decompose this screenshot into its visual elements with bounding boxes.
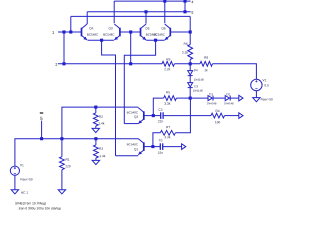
ground below R2 (92, 128, 99, 132)
node Q2 base junction (152, 114, 155, 117)
label V1 (20, 164, 24, 166)
label R6 (184, 43, 188, 45)
transistor Q2 (mirrored) (138, 108, 144, 124)
label R9 2.2k (164, 68, 170, 70)
label Q6 BC548C (154, 34, 165, 36)
wire D4 to D3 (189, 76, 191, 83)
label V2 0.5 (265, 84, 269, 86)
output port arrow 3 (182, 144, 186, 150)
resistor R9 (162, 61, 174, 66)
net flag 3 (40, 112, 43, 120)
ground below R1 (58, 190, 65, 194)
transistor Q1 (mirrored) (138, 139, 144, 155)
wire rail3 right riser to Q6 base (189, 16, 191, 44)
ground below R3 (92, 160, 99, 164)
label Q1 (134, 148, 138, 151)
resistor R6 (188, 45, 193, 64)
wire Q2 collector run (62, 107, 138, 139)
wire rail1 (Q3/Q6 collectors) (114, 0, 190, 2)
transistor Q3 (mirrored) (114, 24, 120, 40)
diode D1 (208, 96, 213, 101)
node bottom wire junctions (40, 137, 97, 140)
label R5 (166, 91, 170, 93)
node pair2 emitter junction (154, 39, 157, 42)
label Q3 (109, 27, 113, 30)
label R8 (204, 56, 208, 58)
label V2 (262, 79, 266, 81)
ground below V1 (11, 190, 18, 194)
wire node to D1 (190, 97, 208, 99)
label D1 (209, 93, 212, 95)
wire rail3 (Q4 base to Q6 base) (71, 15, 190, 17)
output port arrow 2 (239, 113, 243, 119)
label R3 (99, 147, 103, 149)
wire pair1 emitter bus (88, 39, 114, 41)
resistor R1 (60, 139, 65, 190)
wire Q4 base riser down (63, 32, 65, 64)
label R6 2.2k (182, 51, 188, 53)
wire Q3-Q5 base riser down (130, 32, 132, 64)
wire R5 right leg (176, 97, 190, 99)
label Q1 BC548C (127, 143, 138, 145)
port flag 2 (56, 63, 58, 66)
wire Q6 base lead (170, 31, 190, 33)
label Q4 BC548C (87, 34, 98, 36)
wire bias bus to V2 (213, 64, 257, 80)
label R1 220 (65, 165, 70, 167)
wire D3 to node (189, 88, 191, 98)
wire rail1-rail2 link (184, 1, 186, 12)
capacitor C1 (153, 143, 182, 150)
label D2 1N4148 (224, 102, 234, 104)
label R4 100 (215, 121, 220, 123)
wire Q1 base lead (144, 146, 153, 148)
label D4 (194, 69, 198, 71)
wire Q1 emitter lead (116, 155, 139, 157)
capacitor C3 (153, 112, 211, 119)
wire V1 to ground (14, 175, 16, 189)
diode D3 (188, 83, 193, 88)
spice directive (18, 207, 61, 210)
resistor R4 (211, 113, 225, 118)
label V1 SINE value (15, 202, 46, 205)
node rail2 junctions (144, 10, 186, 13)
label R9 (167, 58, 171, 60)
label R5 3.3k (164, 102, 170, 104)
diode D2 (225, 96, 230, 101)
label R1 (66, 158, 70, 160)
wire Q4 base lead (58, 31, 82, 33)
label R2 1.4k (99, 122, 105, 124)
label V1 Rser=50 (21, 178, 33, 180)
node Q1 base junction (151, 145, 154, 148)
transistor Q6 (mirrored) (165, 24, 171, 40)
net flag 3 wire (41, 121, 43, 139)
wire R5 left leg (153, 98, 163, 116)
label Q5 BC548C (146, 34, 157, 36)
wire Q2 emitter lead (124, 123, 138, 125)
label D2 (227, 93, 230, 95)
diode D4 (188, 71, 193, 76)
resistor R3 (94, 139, 99, 161)
label R8 1k (205, 69, 208, 71)
label R7 (166, 126, 170, 128)
label R7 3.3k (165, 136, 171, 138)
label R3 1.4k (100, 155, 106, 157)
wire Q3-Q5 base link (120, 31, 141, 33)
node pair1 emitter junction (100, 39, 103, 42)
label C3 22n (158, 120, 163, 122)
wire Q2 base lead (144, 115, 154, 117)
wire V2 to ground (255, 91, 257, 98)
resistor R7 (160, 130, 175, 135)
resistor R5 (164, 96, 177, 101)
output port arrow 1 (239, 95, 243, 101)
wire Q5 collector riser (145, 12, 147, 24)
label R2 (99, 115, 103, 117)
label C1 (159, 139, 163, 141)
transistor Q5 (141, 24, 147, 40)
label D3 (194, 85, 197, 87)
net label 5 (192, 11, 194, 14)
wire pair2 emitter bus (146, 39, 164, 41)
label Q4 (89, 27, 93, 30)
label C3 (159, 108, 163, 110)
node bias bus junctions (62, 62, 132, 65)
label C1 22n (158, 152, 163, 154)
wire bias to D4 (189, 64, 191, 71)
wire bias bus mid (174, 63, 200, 65)
label Q2 BC548C (127, 111, 138, 113)
wire V1 to Q1 collector (15, 139, 138, 167)
voltage source V1 (10, 166, 19, 175)
ground below V2 (253, 98, 260, 102)
wire D1 to D2 (213, 97, 225, 99)
wire pair2 tail to Q2 emitter (124, 40, 155, 123)
wire Q6 collector riser (164, 1, 166, 23)
wire rail2 (Q4/Q5 collectors) (87, 11, 190, 13)
label D3 1N4148 (193, 90, 203, 92)
node Q3-Q5 base junction (129, 30, 132, 33)
net label 4 (192, 1, 194, 4)
node Q6 base junction (189, 30, 192, 33)
transistor Q4 (82, 23, 88, 40)
wire rail3 left riser to Q4 base (70, 16, 72, 32)
label V2 Rser=50 (261, 98, 273, 100)
label Q5 (145, 27, 149, 30)
wire Q3 collector riser (113, 1, 115, 23)
wire bias bus left (58, 63, 162, 65)
label Q2 (134, 116, 138, 119)
node R2 top junction (94, 106, 97, 109)
wire pair1 tail to Q1 emitter (102, 40, 116, 156)
node Q4 base junctions (62, 30, 72, 33)
label Q3 BC548C (103, 34, 114, 36)
label V1 AC 1 (21, 191, 28, 193)
node rail1 junctions (163, 0, 186, 3)
wire R7 right leg (175, 98, 190, 133)
label Q6 (162, 27, 166, 30)
label D1 1N4148 (207, 102, 217, 104)
wire R4 to output port (225, 115, 239, 117)
wire Q4 collector riser (86, 12, 88, 24)
resistor R2 (93, 107, 98, 128)
wire R7 left leg (153, 133, 160, 147)
voltage source V2 (251, 79, 262, 90)
wire D2 to output port (230, 97, 239, 99)
resistor R8 (200, 61, 213, 66)
label D4 1N4148 (194, 79, 204, 81)
node bias-diode junction (189, 62, 192, 65)
label R4 (216, 110, 220, 112)
port flag 1 (52, 31, 54, 34)
node diode output junction (189, 97, 192, 100)
